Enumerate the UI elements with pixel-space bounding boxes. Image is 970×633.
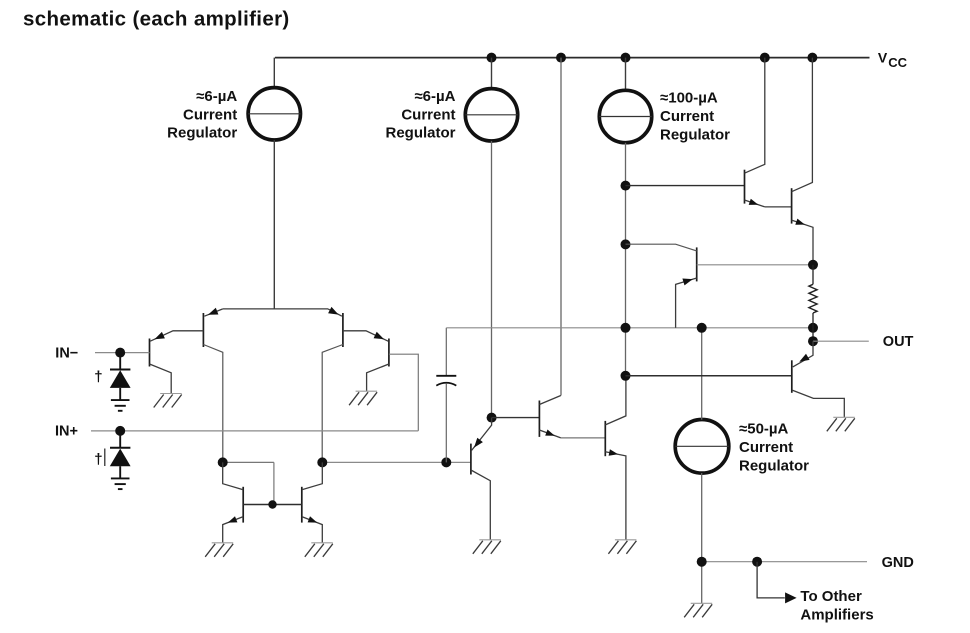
svg-text:Amplifiers: Amplifiers: [800, 607, 873, 624]
svg-text:IN−: IN−: [55, 346, 78, 362]
svg-text:†: †: [94, 451, 102, 468]
svg-text:GND: GND: [882, 555, 914, 571]
svg-text:Regulator: Regulator: [385, 125, 455, 142]
svg-text:To Other: To Other: [800, 588, 862, 605]
svg-text:Current: Current: [401, 107, 455, 124]
svg-text:Regulator: Regulator: [739, 457, 809, 474]
svg-text:Regulator: Regulator: [167, 125, 237, 142]
svg-text:Current: Current: [739, 439, 793, 456]
svg-text:IN+: IN+: [55, 424, 78, 440]
svg-text:schematic (each amplifier): schematic (each amplifier): [23, 7, 290, 30]
svg-text:OUT: OUT: [883, 334, 914, 350]
svg-text:Current: Current: [183, 107, 237, 124]
svg-text:≈6-µA: ≈6-µA: [196, 88, 237, 105]
svg-text:Current: Current: [660, 108, 714, 125]
svg-text:≈100-µA: ≈100-µA: [660, 90, 718, 107]
svg-text:†: †: [94, 368, 102, 385]
svg-text:≈50-µA: ≈50-µA: [739, 420, 789, 437]
svg-text:CC: CC: [888, 55, 907, 70]
svg-text:≈6-µA: ≈6-µA: [414, 88, 455, 105]
svg-text:Regulator: Regulator: [660, 126, 730, 143]
svg-text:V: V: [878, 50, 888, 66]
